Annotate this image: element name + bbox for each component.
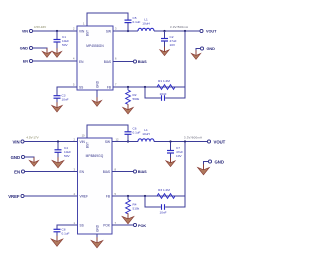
op IC U1 MP4558GN: [77, 26, 113, 90]
capacitor C2 47uF 10V: [161, 31, 177, 50]
terminal VOUT (top): [200, 29, 217, 33]
terminal POK: [133, 223, 146, 227]
svg-text:BIAS: BIAS: [138, 170, 147, 174]
wire GND terminal: [33, 48, 47, 51]
svg-text:10nF: 10nF: [159, 211, 166, 215]
wire FB row (bottom): [112, 195, 185, 197]
svg-text:4.5V-17V: 4.5V-17V: [26, 136, 38, 140]
node junction FB sense (bottom): [184, 140, 186, 142]
svg-text:VIN: VIN: [80, 140, 86, 144]
svg-text:VOUT: VOUT: [206, 30, 217, 34]
node junction SW/BST (bottom): [127, 140, 129, 142]
svg-text:5: 5: [115, 192, 117, 196]
svg-text:VIN: VIN: [22, 30, 28, 34]
ground at GND terminal (top-right): [191, 50, 200, 59]
ground under C8: [51, 236, 63, 247]
terminal GND (bottom-left): [11, 155, 25, 160]
svg-text:GND: GND: [207, 47, 216, 51]
ground under R4: [122, 213, 134, 224]
capacitor C4 10uF 50V: [55, 142, 72, 161]
wire VIN to IC: [33, 30, 77, 32]
node junction VIN/C4: [57, 140, 59, 142]
ground at IC GND pin (top): [92, 90, 101, 106]
svg-text:1: 1: [74, 221, 76, 225]
svg-text:8: 8: [115, 168, 117, 172]
svg-text:GND: GND: [215, 159, 224, 164]
wire SS: [57, 87, 77, 95]
wire VIN to IC (bottom): [24, 141, 77, 143]
ground at GND terminal (bottom-right): [198, 164, 210, 175]
capacitor C7 47uF 10V: [167, 142, 183, 161]
ground under R2: [123, 104, 133, 114]
node junction C2: [163, 30, 165, 32]
svg-text:560k: 560k: [133, 97, 140, 101]
wire EN to IC (bottom): [25, 171, 78, 173]
inductor L2 10uH: [138, 128, 154, 142]
ground under C7: [166, 158, 175, 167]
svg-text:MP8869GQ: MP8869GQ: [86, 154, 104, 158]
svg-text:0.1uF: 0.1uF: [133, 131, 141, 135]
svg-text:3.3V/500mA: 3.3V/500mA: [170, 25, 188, 29]
svg-text:12: 12: [116, 138, 119, 142]
wire VREF to IC: [24, 195, 77, 197]
svg-text:5: 5: [73, 83, 75, 87]
svg-text:R3 1.2M: R3 1.2M: [158, 188, 170, 192]
svg-text:50V: 50V: [64, 154, 70, 158]
capacitor C5 0.1uF (bootstrap): [125, 16, 141, 31]
svg-text:GND: GND: [11, 155, 20, 160]
svg-text:3: 3: [74, 168, 76, 172]
capacitor C8 0.1uF (soft start bottom): [54, 228, 70, 239]
terminal BIAS (bottom): [133, 170, 147, 174]
resistor R3 1.2M (feedback bottom): [157, 188, 175, 198]
svg-text:10uH: 10uH: [142, 132, 149, 136]
wire VOUT sense drop (bottom): [184, 142, 186, 197]
svg-text:EN: EN: [80, 170, 85, 174]
svg-text:R1 1.2M: R1 1.2M: [158, 79, 170, 83]
wire VOUT sense drop: [184, 31, 186, 87]
wire FB row: [113, 86, 185, 88]
terminal VREF: [8, 194, 24, 199]
svg-text:FB: FB: [106, 195, 110, 199]
wire L1 to VOUT: [154, 30, 200, 32]
wire BST loop (bottom): [87, 125, 128, 138]
wire BST loop: [87, 13, 128, 26]
wire EN to IC: [33, 60, 77, 62]
svg-text:10V: 10V: [176, 154, 182, 158]
terminal BIAS (top): [133, 60, 147, 64]
terminal VIN (bottom): [12, 139, 24, 144]
svg-text:7: 7: [115, 221, 117, 225]
capacitor feedback 10nF: [145, 87, 185, 101]
svg-text:2: 2: [73, 27, 75, 31]
svg-text:10nF: 10nF: [159, 92, 166, 96]
svg-text:0.1uF: 0.1uF: [62, 232, 70, 236]
ground under C3: [52, 102, 62, 112]
svg-text:10nF: 10nF: [62, 98, 69, 102]
ground at GND terminal (top-left): [42, 48, 51, 57]
svg-text:SW: SW: [105, 140, 110, 144]
svg-text:1: 1: [83, 22, 85, 26]
svg-text:BST: BST: [86, 30, 90, 36]
svg-text:2: 2: [74, 138, 76, 142]
svg-text:BST: BST: [86, 142, 90, 148]
svg-text:3.3V/600mA: 3.3V/600mA: [184, 136, 202, 140]
node junction R3 left: [144, 195, 146, 197]
wire BIAS: [113, 61, 133, 63]
node junction VIN/C1: [56, 30, 58, 32]
svg-text:VREF: VREF: [8, 194, 20, 199]
wire POK: [112, 224, 133, 226]
svg-text:4: 4: [74, 192, 76, 196]
svg-text:EN: EN: [14, 169, 20, 174]
wire GND terminal (bottom-left): [25, 157, 34, 160]
node junction R4: [127, 195, 129, 197]
capacitor C3 10nF (soft start): [54, 94, 69, 106]
svg-text:VIN: VIN: [79, 30, 85, 34]
wire GND terminal to ground (bottom-right): [204, 162, 209, 168]
wire GND terminal to ground: [196, 49, 200, 54]
svg-text:SW: SW: [106, 30, 111, 34]
terminal GND (bottom-right): [208, 159, 223, 164]
wire BIAS (bottom): [112, 171, 133, 173]
svg-text:FB: FB: [107, 86, 111, 90]
svg-text:POK: POK: [138, 224, 146, 228]
svg-text:4.5V-16V: 4.5V-16V: [34, 25, 46, 29]
wire SS (bottom): [57, 225, 78, 229]
svg-text:7: 7: [115, 83, 117, 87]
svg-text:4: 4: [73, 57, 75, 61]
terminal EN (bottom): [14, 169, 24, 174]
terminal EN (top): [23, 59, 33, 63]
svg-text:510k: 510k: [133, 207, 140, 211]
resistor R2 560k: [126, 87, 140, 107]
op IC U2 MP8869GQ: [78, 138, 113, 234]
svg-text:50V: 50V: [62, 43, 68, 47]
svg-text:GND: GND: [96, 224, 100, 232]
inductor L1 10uH: [138, 18, 154, 32]
svg-text:MP4558GN: MP4558GN: [86, 44, 104, 48]
wire SW to L1: [113, 30, 138, 32]
svg-text:POK: POK: [103, 224, 111, 228]
ground under C2: [160, 47, 169, 56]
svg-text:BIAS: BIAS: [138, 60, 147, 64]
resistor R1 1.2M (feedback): [157, 79, 175, 89]
ground at GND terminal (bottom-left): [29, 157, 38, 166]
svg-text:BIAS: BIAS: [103, 170, 110, 174]
svg-text:SS: SS: [80, 224, 84, 228]
svg-text:0.1uF: 0.1uF: [133, 20, 141, 24]
ground under C4: [52, 157, 64, 168]
wire SW to L2: [112, 141, 138, 143]
svg-text:SS: SS: [79, 86, 83, 90]
node junction C7: [169, 140, 171, 142]
svg-text:BIAS: BIAS: [104, 60, 111, 64]
svg-text:GND: GND: [96, 80, 100, 88]
svg-text:10V: 10V: [170, 43, 176, 47]
svg-text:3: 3: [115, 27, 117, 31]
svg-text:EN: EN: [23, 60, 28, 64]
svg-text:VIN: VIN: [12, 139, 19, 144]
node junction R1 left: [144, 86, 146, 88]
capacitor C1 10uF 50V: [54, 31, 70, 51]
svg-text:VOUT: VOUT: [214, 139, 226, 144]
svg-text:VREF: VREF: [80, 195, 89, 199]
ground under C1: [52, 48, 61, 57]
terminal VOUT (bottom): [207, 139, 225, 144]
wire L2 to VOUT: [154, 141, 207, 143]
capacitor feedback 10nF (bottom): [145, 196, 185, 215]
terminal VIN (top): [22, 29, 33, 33]
node junction FB sense: [184, 30, 186, 32]
svg-text:GND: GND: [20, 47, 29, 51]
node junction R2: [127, 86, 129, 88]
svg-text:10uH: 10uH: [142, 22, 149, 26]
svg-text:EN: EN: [79, 60, 84, 64]
terminal GND (top-left): [20, 46, 33, 50]
node junction SW/BST: [127, 30, 129, 32]
svg-text:10: 10: [82, 134, 85, 138]
terminal GND (top-right): [200, 47, 215, 51]
svg-text:6: 6: [115, 57, 117, 61]
capacitor C6 0.1uF (bootstrap bottom): [125, 127, 141, 142]
resistor R4 510k: [126, 196, 140, 216]
ground at IC GND pin (bottom): [91, 234, 103, 248]
